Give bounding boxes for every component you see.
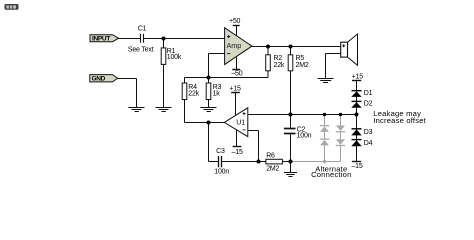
- svg-text:100n: 100n: [214, 169, 229, 176]
- svg-text:–50: –50: [231, 70, 242, 77]
- svg-text:Connection: Connection: [311, 170, 351, 179]
- svg-text:–15: –15: [351, 163, 362, 170]
- svg-text:Amp: Amp: [227, 41, 242, 50]
- svg-text:22k: 22k: [188, 91, 199, 98]
- svg-text:–15: –15: [232, 149, 243, 156]
- svg-text:+50: +50: [229, 18, 241, 25]
- svg-text:D4: D4: [364, 140, 373, 147]
- svg-text:INPUT: INPUT: [92, 36, 110, 43]
- svg-text:+15: +15: [229, 85, 241, 92]
- svg-text:GND: GND: [92, 76, 106, 83]
- svg-text:100k: 100k: [167, 54, 182, 61]
- svg-text:C1: C1: [138, 26, 147, 33]
- svg-text:Increase offset: Increase offset: [373, 116, 426, 125]
- svg-text:22k: 22k: [274, 62, 285, 69]
- svg-text:2M2: 2M2: [296, 62, 309, 69]
- svg-text:D3: D3: [364, 129, 373, 136]
- svg-text:C3: C3: [216, 148, 225, 155]
- svg-text:U1: U1: [236, 120, 245, 127]
- svg-text:D2: D2: [364, 101, 373, 108]
- svg-text:D1: D1: [364, 90, 373, 97]
- svg-text:2M2: 2M2: [266, 166, 279, 173]
- svg-text:+15: +15: [352, 73, 364, 80]
- svg-text:R6: R6: [266, 152, 275, 159]
- svg-text:1k: 1k: [213, 91, 221, 98]
- svg-text:See Text: See Text: [128, 46, 154, 53]
- svg-text:100n: 100n: [297, 133, 312, 140]
